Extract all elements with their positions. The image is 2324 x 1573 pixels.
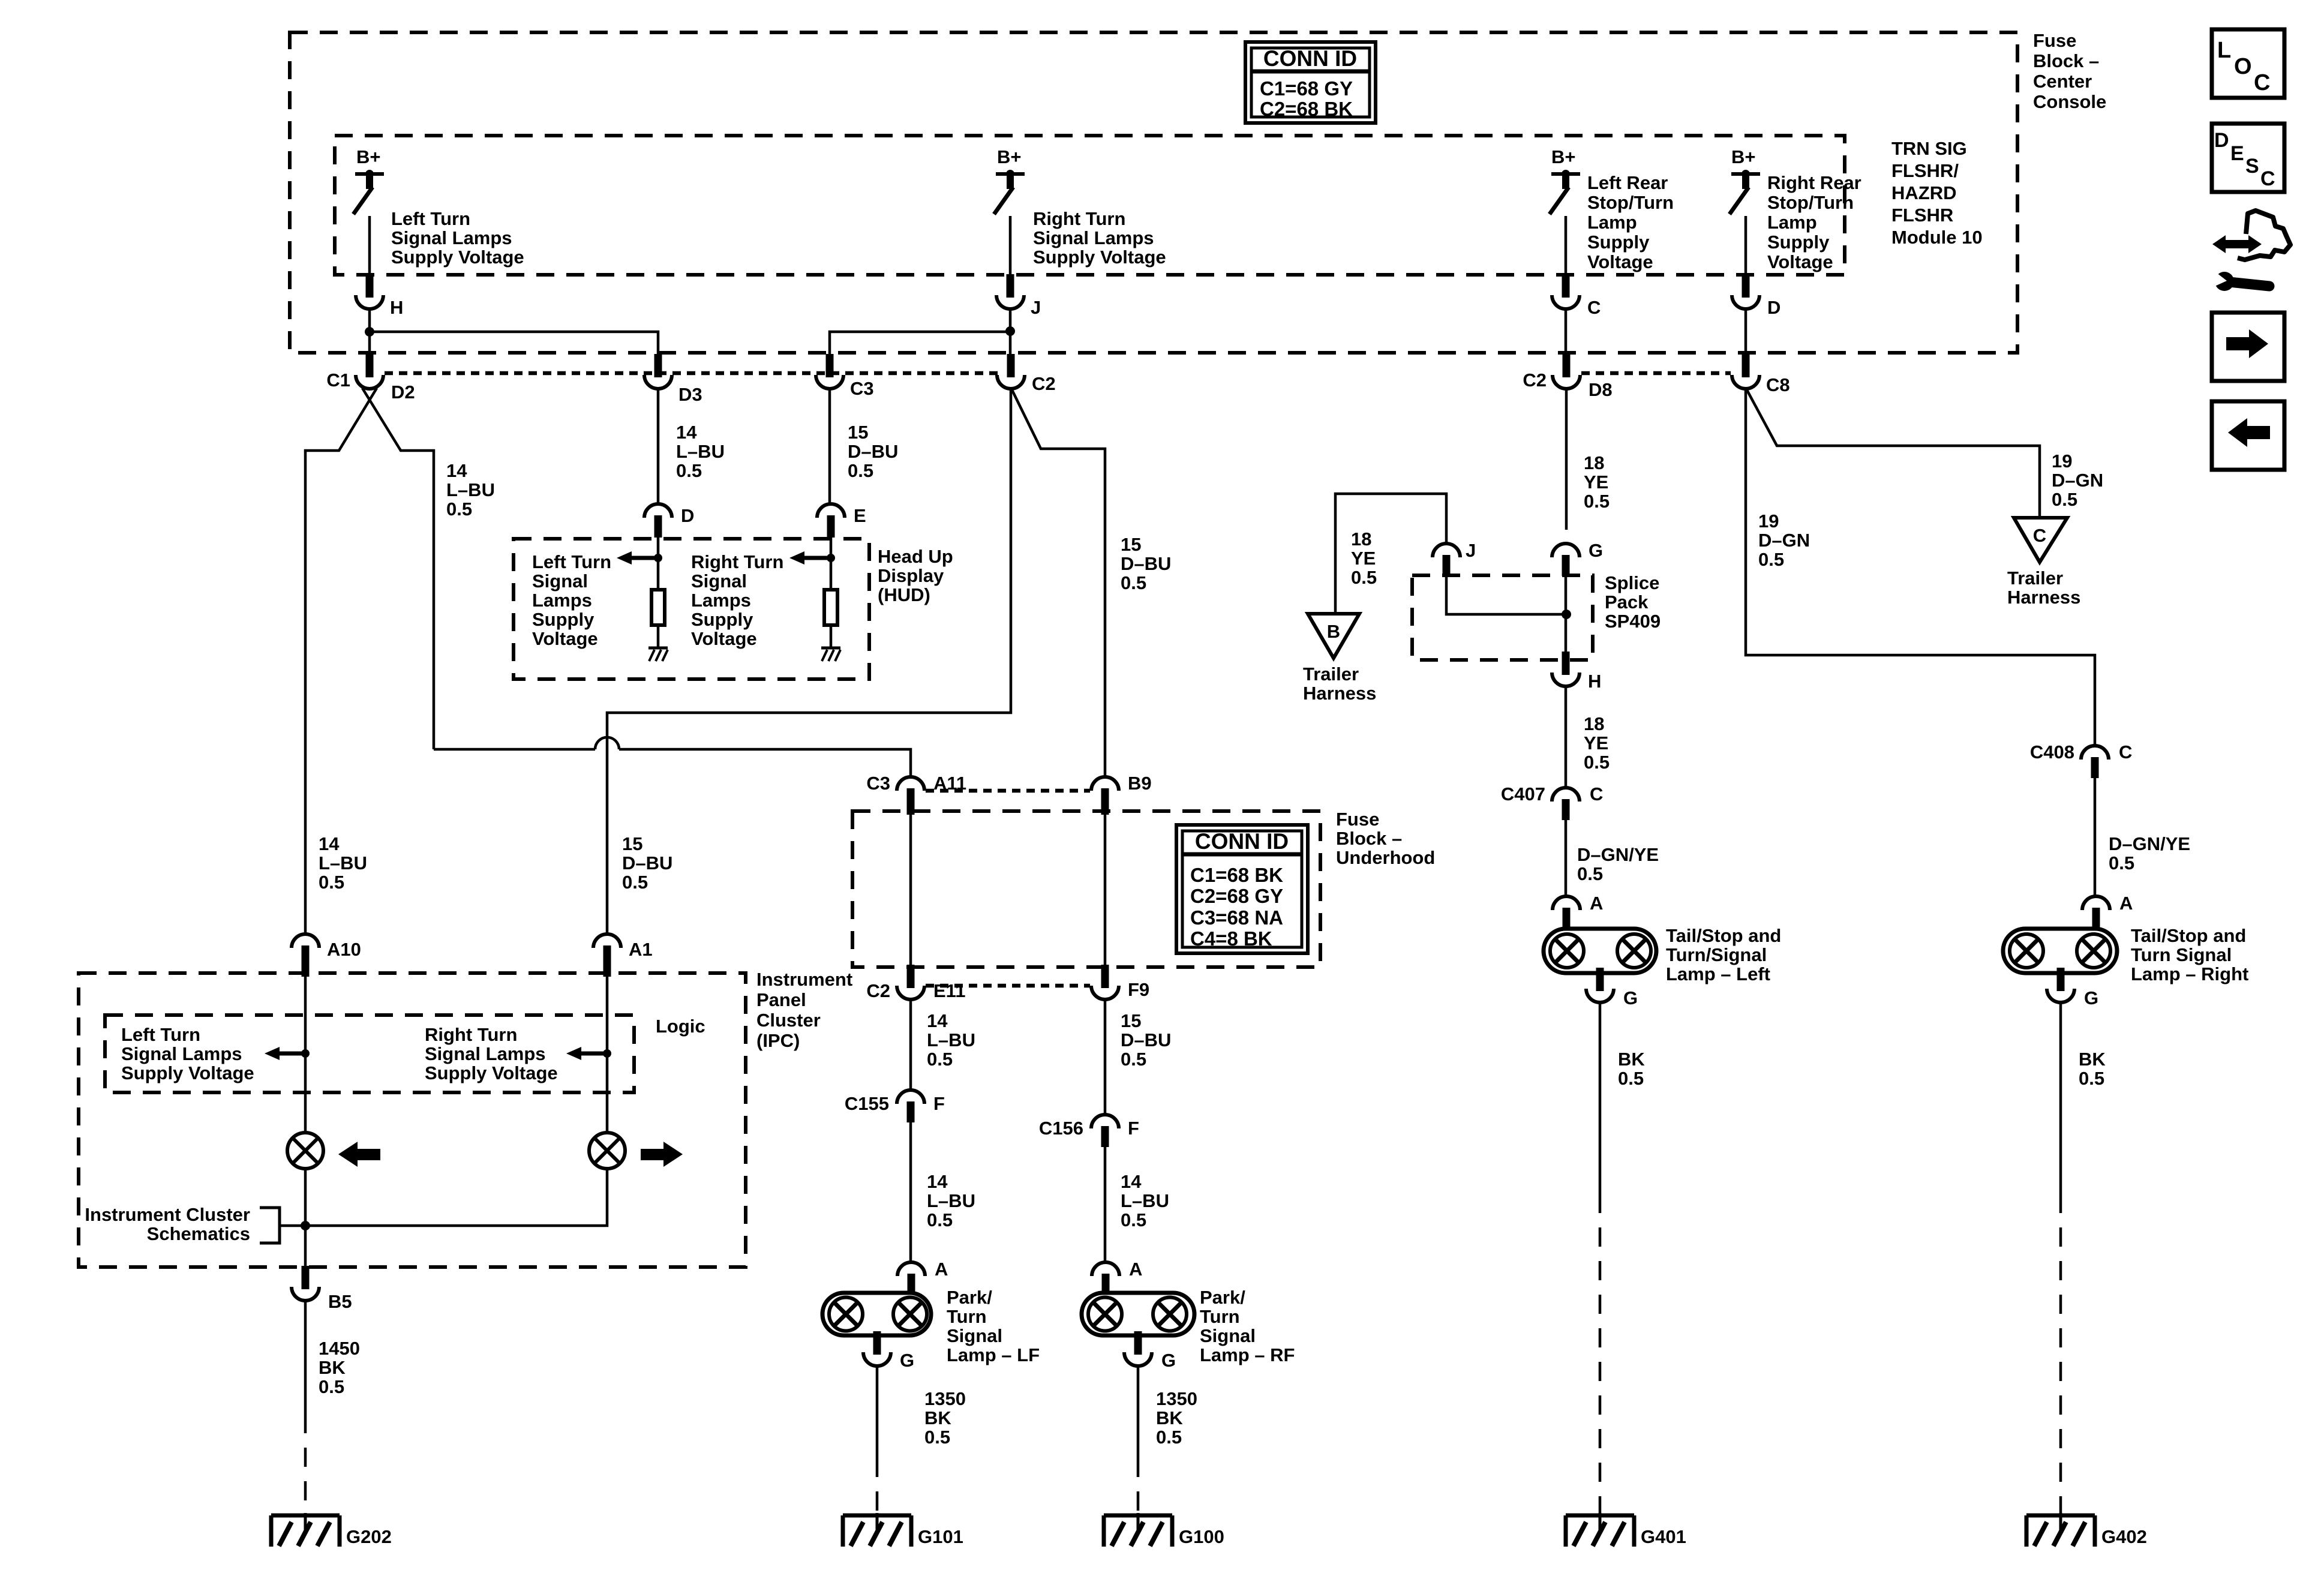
svg-text:1350: 1350 — [1156, 1388, 1197, 1409]
svg-text:G402: G402 — [2101, 1526, 2147, 1547]
icon vehicle with arrow and wrench — [2212, 235, 2226, 253]
HUD left turn input wire — [657, 536, 660, 590]
svg-text:BK: BK — [1618, 1049, 1645, 1070]
svg-text:G: G — [1589, 540, 1603, 561]
wire tail right G down — [2059, 1002, 2062, 1194]
connector C — [1562, 274, 1570, 298]
svg-text:Lamp: Lamp — [1587, 212, 1637, 233]
svg-text:18: 18 — [1584, 452, 1604, 473]
svg-text:E11: E11 — [933, 980, 965, 1001]
trailer harness C triangle — [2014, 518, 2067, 562]
svg-text:0.5: 0.5 — [924, 1427, 950, 1448]
connector A1 — [593, 934, 621, 948]
wire tail left G down — [1599, 1002, 1602, 1194]
svg-text:0.5: 0.5 — [319, 1376, 344, 1397]
junction node HUD left — [654, 554, 662, 562]
ground G100 — [1104, 1514, 1172, 1518]
ground G401 — [1566, 1514, 1634, 1518]
svg-text:0.5: 0.5 — [1584, 491, 1610, 512]
svg-text:Block –: Block – — [2033, 50, 2099, 71]
connector J — [1007, 274, 1014, 298]
svg-text:A: A — [1129, 1259, 1142, 1280]
svg-text:SP409: SP409 — [1605, 611, 1661, 632]
svg-text:F9: F9 — [1128, 979, 1149, 1000]
wire A1 into IPC — [606, 966, 609, 1133]
svg-text:C2=68 GY: C2=68 GY — [1190, 885, 1283, 907]
wire A11 down to E11 — [909, 809, 912, 965]
wire junction down to C2 — [1009, 332, 1012, 355]
wire E11 to C155 — [909, 999, 912, 1090]
svg-text:Supply Voltage: Supply Voltage — [425, 1062, 558, 1083]
svg-text:Supply: Supply — [1587, 232, 1650, 253]
inner dashed box: TRN SIG FLSHR/HAZRD FLSHR Module 10 — [335, 136, 1845, 275]
svg-text:C: C — [2260, 167, 2275, 190]
connector D3 — [654, 354, 662, 377]
svg-text:F: F — [1128, 1118, 1139, 1139]
svg-text:G: G — [900, 1350, 914, 1371]
svg-text:C: C — [2033, 525, 2046, 546]
tail/stop turn signal lamp - right — [2003, 929, 2117, 973]
svg-text:Signal Lamps: Signal Lamps — [391, 227, 512, 248]
svg-text:0.5: 0.5 — [2052, 489, 2077, 510]
svg-text:YE: YE — [1584, 472, 1608, 493]
junction node logic left — [301, 1049, 310, 1058]
svg-text:A1: A1 — [629, 939, 653, 960]
svg-text:C1=68 BK: C1=68 BK — [1190, 864, 1283, 886]
connector C155 pin F — [897, 1090, 924, 1104]
svg-text:Lamp – RF: Lamp – RF — [1200, 1344, 1295, 1365]
svg-text:0.5: 0.5 — [1577, 863, 1603, 884]
svg-text:Right Turn: Right Turn — [691, 551, 783, 572]
icon left arrow box — [2212, 401, 2284, 470]
svg-text:D–BU: D–BU — [1121, 1029, 1171, 1050]
wire resistor to ground HUD left — [657, 625, 660, 648]
CONN ID table (underhood) — [1176, 825, 1308, 953]
wire C8 down to C408 — [1746, 389, 2095, 746]
svg-text:Left Turn: Left Turn — [391, 208, 470, 229]
dashed wire to G401 — [1599, 1194, 1602, 1515]
svg-text:Left Turn: Left Turn — [121, 1024, 200, 1045]
connector A (tail lamp right) — [2082, 896, 2110, 910]
svg-text:C155: C155 — [845, 1093, 889, 1114]
connector D (HUD) — [644, 504, 672, 518]
wire resistor to ground HUD right — [830, 625, 833, 648]
svg-text:H: H — [1588, 671, 1601, 692]
wire B5 down — [304, 1301, 307, 1414]
wire splice J to junction — [1446, 576, 1562, 614]
connector C407 pin C — [1552, 788, 1580, 801]
svg-text:0.5: 0.5 — [1156, 1427, 1182, 1448]
svg-text:D–BU: D–BU — [848, 441, 898, 462]
fuse block underhood dashed box — [852, 811, 1320, 967]
svg-text:D: D — [1767, 297, 1780, 318]
svg-text:B5: B5 — [328, 1291, 352, 1312]
connector G (splice pack) — [1552, 544, 1580, 557]
svg-text:J: J — [1466, 540, 1476, 561]
svg-text:B+: B+ — [356, 146, 381, 167]
connector row dotted line D8 to C8 — [1581, 371, 1731, 376]
svg-text:TRN SIG: TRN SIG — [1891, 138, 1967, 159]
svg-text:19: 19 — [2052, 451, 2072, 472]
svg-text:C2: C2 — [866, 980, 890, 1001]
svg-text:0.5: 0.5 — [622, 872, 648, 893]
ground G202 — [271, 1514, 340, 1518]
svg-text:Left Rear: Left Rear — [1587, 172, 1668, 193]
wire junction to C3 drop — [830, 332, 1010, 355]
svg-text:Turn/Signal: Turn/Signal — [1666, 944, 1767, 965]
svg-text:0.5: 0.5 — [1351, 567, 1377, 588]
svg-text:BK: BK — [2079, 1049, 2106, 1070]
svg-text:0.5: 0.5 — [848, 460, 873, 481]
park/turn signal lamp - RF — [1082, 1293, 1194, 1335]
IPC dashed box — [79, 973, 746, 1267]
icon right arrow box — [2212, 313, 2284, 381]
connector row dotted line A11 to B9 — [926, 789, 1090, 793]
wire right lamp down to bus — [280, 1169, 607, 1226]
svg-text:Signal: Signal — [1200, 1325, 1256, 1346]
svg-text:(IPC): (IPC) — [756, 1030, 800, 1051]
svg-text:Pack: Pack — [1605, 592, 1649, 613]
svg-text:0.5: 0.5 — [676, 460, 702, 481]
svg-text:O: O — [2234, 54, 2252, 79]
wire splice H to C407 — [1565, 686, 1568, 788]
junction node splice — [1562, 610, 1571, 619]
svg-text:L–BU: L–BU — [927, 1029, 975, 1050]
svg-text:C: C — [2119, 742, 2132, 763]
wire C8 to trailer C branch — [1747, 390, 2040, 518]
svg-text:Instrument: Instrument — [756, 969, 852, 990]
svg-text:0.5: 0.5 — [319, 872, 344, 893]
wire D8 to splice G — [1565, 389, 1568, 530]
svg-text:14: 14 — [1121, 1171, 1142, 1192]
svg-text:Right Turn: Right Turn — [1033, 208, 1125, 229]
connector H (splice pack out) — [1562, 652, 1570, 675]
svg-text:Park/: Park/ — [947, 1287, 992, 1308]
svg-text:Lamp: Lamp — [1767, 212, 1817, 233]
svg-text:Lamp – Right: Lamp – Right — [2131, 963, 2248, 984]
svg-text:Block –: Block – — [1336, 828, 1402, 849]
svg-text:E: E — [854, 505, 866, 526]
svg-text:Supply Voltage: Supply Voltage — [121, 1062, 254, 1083]
svg-text:Voltage: Voltage — [1767, 251, 1833, 272]
wire C2 diagonal to B9 branch — [1012, 390, 1105, 777]
wire C155 to park lamp LF — [909, 1122, 912, 1262]
svg-text:0.5: 0.5 — [1618, 1068, 1644, 1089]
svg-text:C156: C156 — [1039, 1118, 1083, 1139]
svg-text:D–GN: D–GN — [2052, 470, 2103, 491]
svg-text:Underhood: Underhood — [1336, 847, 1435, 868]
svg-text:L–BU: L–BU — [446, 479, 495, 500]
svg-text:FLSHR/: FLSHR/ — [1891, 160, 1959, 181]
svg-text:G401: G401 — [1641, 1526, 1686, 1547]
svg-text:Instrument Cluster: Instrument Cluster — [85, 1204, 250, 1225]
svg-text:Park/: Park/ — [1200, 1287, 1245, 1308]
dashed wire to G101 — [876, 1458, 879, 1515]
svg-text:D–GN: D–GN — [1758, 530, 1810, 551]
svg-text:Signal Lamps: Signal Lamps — [121, 1043, 242, 1064]
svg-text:Supply: Supply — [1767, 232, 1830, 253]
junction node at J branch — [1005, 326, 1015, 336]
connector C2 pin D8 — [1563, 354, 1571, 377]
ground G402 — [2026, 1514, 2095, 1518]
svg-text:H: H — [390, 297, 403, 318]
svg-text:18: 18 — [1584, 713, 1604, 734]
svg-text:Lamps: Lamps — [532, 590, 592, 611]
svg-text:Right Turn: Right Turn — [425, 1024, 517, 1045]
wire junction to D3 drop — [370, 332, 658, 355]
connector H — [366, 274, 374, 298]
svg-text:B: B — [1327, 621, 1340, 642]
dashed wire to G202 — [304, 1414, 307, 1515]
connector C408 pin C — [2081, 746, 2109, 760]
svg-text:Left Turn: Left Turn — [532, 551, 611, 572]
svg-text:Signal: Signal — [532, 571, 588, 592]
svg-text:C408: C408 — [2030, 742, 2074, 763]
svg-text:Voltage: Voltage — [691, 628, 757, 649]
svg-text:Supply Voltage: Supply Voltage — [391, 247, 524, 268]
svg-text:15: 15 — [848, 422, 868, 443]
dashed wire to G402 — [2059, 1194, 2062, 1515]
wire B+ left switch to H — [368, 216, 371, 277]
wire B9 down to F9 — [1104, 809, 1107, 965]
connector B5 — [302, 1266, 310, 1289]
wire C407 to tail lamp left A — [1565, 820, 1568, 897]
svg-text:0.5: 0.5 — [2079, 1068, 2104, 1089]
svg-text:L: L — [2217, 38, 2231, 63]
wire F9 to C156 — [1104, 999, 1107, 1115]
svg-text:Schematics: Schematics — [147, 1223, 250, 1244]
svg-text:0.5: 0.5 — [1584, 752, 1610, 773]
junction node schematics bus — [301, 1221, 310, 1230]
svg-text:15: 15 — [1121, 534, 1141, 555]
svg-text:0.5: 0.5 — [1121, 1049, 1146, 1070]
svg-text:Cluster: Cluster — [756, 1010, 821, 1031]
connector G (park lamp RF) — [1134, 1331, 1142, 1355]
wire D2 branch to C3/A11 with hop — [434, 748, 595, 751]
wire splice G through junction to H — [1565, 576, 1568, 652]
arrow to Left Turn Signal Lamps Supply Voltage (HUD) — [617, 551, 632, 565]
wire park LF G down — [876, 1366, 879, 1458]
svg-text:Turn: Turn — [1200, 1306, 1240, 1327]
connector C2 — [1007, 354, 1015, 377]
ground (HUD left) — [648, 647, 668, 650]
left turn indicator arrow — [338, 1142, 358, 1167]
connector G (tail lamp left) — [1596, 968, 1604, 991]
wire C down to D8 — [1565, 309, 1568, 355]
resistor HUD left — [651, 590, 665, 625]
svg-text:Tail/Stop and: Tail/Stop and — [2131, 925, 2246, 946]
svg-text:D: D — [2214, 129, 2229, 152]
wire D3 down to HUD D — [657, 389, 660, 505]
wire park RF G down — [1137, 1366, 1140, 1458]
svg-text:J: J — [1031, 297, 1041, 318]
svg-text:BK: BK — [319, 1357, 346, 1378]
svg-text:C2=68 BK: C2=68 BK — [1260, 98, 1353, 120]
svg-text:Voltage: Voltage — [1587, 251, 1653, 272]
svg-text:Trailer: Trailer — [1303, 664, 1359, 685]
svg-text:L–BU: L–BU — [1121, 1190, 1169, 1211]
connector G (park lamp LF) — [873, 1331, 881, 1355]
svg-text:Head Up: Head Up — [878, 546, 953, 567]
connector C8 — [1742, 354, 1750, 377]
svg-text:0.5: 0.5 — [2109, 852, 2134, 873]
right turn indicator arrow — [641, 1149, 665, 1160]
svg-text:C4=8 BK: C4=8 BK — [1190, 927, 1272, 950]
connector J (splice pack) — [1433, 544, 1460, 557]
svg-text:C3=68 NA: C3=68 NA — [1190, 906, 1283, 929]
icon DESC box — [2212, 124, 2284, 192]
svg-text:B+: B+ — [1551, 146, 1576, 167]
svg-text:Stop/Turn: Stop/Turn — [1767, 192, 1854, 213]
svg-text:C8: C8 — [1766, 374, 1790, 395]
svg-text:D8: D8 — [1589, 379, 1613, 400]
svg-text:C2: C2 — [1523, 370, 1547, 391]
svg-text:L–BU: L–BU — [676, 441, 725, 462]
svg-text:CONN ID: CONN ID — [1195, 829, 1289, 854]
svg-text:HAZRD: HAZRD — [1891, 182, 1957, 203]
svg-text:E: E — [2230, 142, 2244, 165]
svg-text:C3: C3 — [866, 773, 890, 794]
svg-text:Harness: Harness — [1303, 683, 1376, 704]
wire C156 to park lamp RF — [1104, 1147, 1107, 1262]
svg-text:14: 14 — [446, 460, 467, 481]
svg-text:Signal: Signal — [691, 571, 747, 592]
svg-text:Tail/Stop and: Tail/Stop and — [1666, 925, 1781, 946]
svg-text:G: G — [2084, 987, 2098, 1008]
svg-text:L–BU: L–BU — [927, 1190, 975, 1211]
svg-text:0.5: 0.5 — [1121, 1209, 1146, 1230]
connector C156 pin F — [1091, 1115, 1119, 1128]
trailer harness B triangle — [1308, 614, 1359, 658]
svg-text:(HUD): (HUD) — [878, 584, 930, 605]
svg-text:Fuse: Fuse — [1336, 809, 1379, 830]
svg-text:14: 14 — [676, 422, 697, 443]
svg-text:0.5: 0.5 — [1121, 572, 1146, 593]
svg-text:Voltage: Voltage — [532, 628, 598, 649]
HUD dashed box — [514, 539, 869, 679]
splice pack dashed box SP409 — [1412, 575, 1593, 660]
svg-text:D: D — [681, 505, 694, 526]
wire D down to C8 — [1744, 309, 1747, 355]
svg-text:D2: D2 — [391, 382, 415, 403]
svg-text:C: C — [2254, 70, 2270, 95]
svg-text:B9: B9 — [1128, 773, 1152, 794]
svg-text:B+: B+ — [997, 146, 1022, 167]
svg-text:19: 19 — [1758, 511, 1779, 532]
svg-text:A: A — [1590, 893, 1603, 914]
arrow right turn logic — [566, 1047, 581, 1060]
connector C3 pin A11 — [897, 777, 924, 791]
svg-text:Harness: Harness — [2007, 587, 2080, 608]
resistor HUD right — [824, 590, 837, 625]
svg-text:S: S — [2245, 155, 2259, 178]
svg-text:Console: Console — [2033, 91, 2106, 112]
HUD right turn input wire — [830, 536, 833, 590]
connector C1 pin D2 — [366, 354, 374, 377]
svg-text:D3: D3 — [678, 384, 702, 405]
wire junction down to C1 — [368, 332, 371, 355]
svg-text:A: A — [2119, 893, 2133, 914]
svg-text:0.5: 0.5 — [1758, 549, 1784, 570]
svg-text:Logic: Logic — [656, 1016, 705, 1037]
svg-text:Lamp – Left: Lamp – Left — [1666, 963, 1770, 984]
icon LOC box — [2212, 29, 2284, 98]
svg-text:Supply: Supply — [691, 609, 753, 630]
svg-text:C: C — [1590, 784, 1603, 804]
svg-text:14: 14 — [319, 833, 340, 854]
connector row dotted line E11 to F9 — [926, 984, 1090, 988]
junction node at H branch — [365, 327, 374, 337]
ground (HUD right) — [821, 647, 840, 650]
svg-text:Display: Display — [878, 565, 944, 586]
svg-text:L–BU: L–BU — [319, 852, 367, 873]
svg-text:BK: BK — [924, 1407, 951, 1428]
svg-text:Signal Lamps: Signal Lamps — [1033, 227, 1154, 248]
svg-text:C1=68 GY: C1=68 GY — [1260, 77, 1353, 100]
svg-text:G101: G101 — [918, 1526, 963, 1547]
svg-text:0.5: 0.5 — [446, 499, 472, 520]
logic dashed box — [105, 1015, 634, 1092]
connector C3 — [826, 354, 834, 377]
svg-text:G202: G202 — [346, 1526, 392, 1547]
wire C2 down to IPC A1 — [607, 389, 1011, 934]
connector row dotted line C1 to C2 — [385, 371, 998, 376]
svg-text:G: G — [1623, 987, 1638, 1008]
svg-text:Signal Lamps: Signal Lamps — [425, 1043, 546, 1064]
svg-text:B+: B+ — [1731, 146, 1756, 167]
connector A (park lamp RF) — [1092, 1262, 1119, 1276]
connector G (tail lamp right) — [2057, 968, 2065, 991]
wire B+ right rear to D — [1744, 216, 1747, 277]
svg-text:BK: BK — [1156, 1407, 1183, 1428]
arrow left turn logic — [265, 1047, 280, 1060]
connector A (park lamp LF) — [897, 1262, 925, 1276]
ground G101 — [843, 1514, 911, 1518]
svg-text:Lamps: Lamps — [691, 590, 751, 611]
svg-text:14: 14 — [927, 1010, 948, 1031]
svg-text:Stop/Turn: Stop/Turn — [1587, 192, 1674, 213]
connector F9 — [1101, 965, 1109, 988]
svg-text:Splice: Splice — [1605, 572, 1659, 593]
wire from trailer B to splice J — [1335, 494, 1446, 614]
svg-text:G100: G100 — [1179, 1526, 1224, 1547]
svg-text:F: F — [933, 1093, 945, 1114]
svg-text:Center: Center — [2033, 71, 2092, 92]
svg-text:C1: C1 — [326, 370, 350, 391]
svg-text:1350: 1350 — [924, 1388, 966, 1409]
svg-text:D–GN/YE: D–GN/YE — [2109, 833, 2190, 854]
svg-text:FLSHR: FLSHR — [1891, 205, 1953, 226]
connector A10 — [292, 934, 319, 948]
junction node HUD right — [827, 554, 835, 562]
connector E (HUD) — [817, 504, 845, 518]
junction node logic right — [603, 1049, 611, 1058]
CONN ID table (center console) — [1245, 42, 1376, 123]
svg-text:Fuse: Fuse — [2033, 30, 2076, 51]
svg-text:A11: A11 — [933, 773, 966, 794]
svg-text:15: 15 — [622, 833, 642, 854]
svg-text:G: G — [1161, 1350, 1176, 1371]
indicator lamp left turn — [287, 1133, 323, 1169]
wire A10 into IPC — [304, 966, 307, 1133]
svg-text:D–BU: D–BU — [1121, 553, 1171, 574]
svg-text:A10: A10 — [327, 939, 361, 960]
svg-text:C2: C2 — [1032, 373, 1056, 394]
connector C2 pin E11 — [907, 965, 915, 988]
wire left lamp down — [304, 1169, 307, 1267]
outer dashed box: Fuse Block - Center Console — [290, 32, 2017, 353]
indicator lamp right turn — [589, 1133, 625, 1169]
